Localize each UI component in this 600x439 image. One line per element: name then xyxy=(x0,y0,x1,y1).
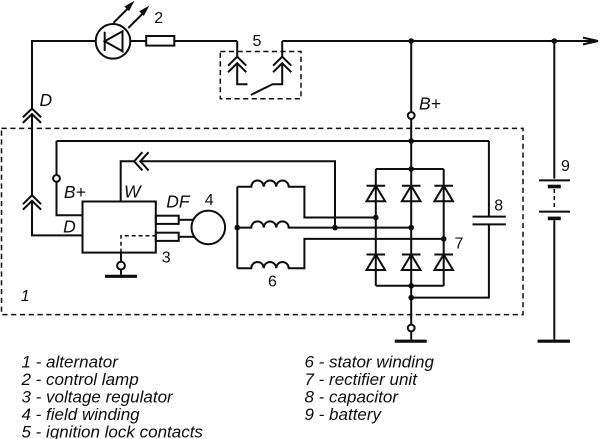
rectifier right leg xyxy=(443,169,445,286)
junction node inner top bus / B+ riser xyxy=(408,138,414,144)
svg-text:3 - voltage regulator: 3 - voltage regulator xyxy=(22,387,175,406)
DF pin lower xyxy=(156,233,179,241)
stator 6 bottom coil and phase wire xyxy=(237,239,443,268)
ground alternator output xyxy=(395,340,427,343)
control lamp 2 light arrow 1 xyxy=(114,1,135,23)
svg-text:2 - control lamp: 2 - control lamp xyxy=(21,370,139,389)
junction node right leg / bottom phase xyxy=(441,236,447,242)
stator 6 middle coil and phase wire xyxy=(237,221,411,227)
alternator 1 dashed boundary box xyxy=(2,128,524,314)
stator 6 top coil and phase wire xyxy=(237,180,375,217)
capacitor 8 bottom wire xyxy=(411,224,489,297)
svg-text:DF: DF xyxy=(166,191,191,211)
wire B+ riser lower xyxy=(410,119,412,169)
ground battery xyxy=(538,340,570,343)
control lamp 2 LED circle xyxy=(96,24,131,59)
svg-text:8 - capacitor: 8 - capacitor xyxy=(305,387,400,406)
rectifier center leg xyxy=(410,169,412,286)
stator 6 left bus xyxy=(236,187,238,269)
svg-text:6 - stator winding: 6 - stator winding xyxy=(305,352,435,371)
field winding 4 xyxy=(192,211,226,245)
junction node top bus / B+ riser xyxy=(408,38,414,44)
junction node top bus / battery riser xyxy=(552,38,558,44)
capacitor 8 plates xyxy=(473,217,506,225)
diode top-center xyxy=(402,186,421,202)
svg-text:W: W xyxy=(124,182,142,202)
junction node W tap xyxy=(332,225,338,231)
wire inner top bus (B+ to capacitor) xyxy=(57,140,489,142)
svg-text:3: 3 xyxy=(162,249,171,266)
switch 5 right contact and blade xyxy=(251,41,291,95)
junction node center leg / middle phase xyxy=(408,225,414,231)
svg-text:D: D xyxy=(40,90,53,110)
svg-text:5 - ignition lock contacts: 5 - ignition lock contacts xyxy=(22,422,204,439)
svg-text:2: 2 xyxy=(154,10,163,27)
svg-text:9 - battery: 9 - battery xyxy=(305,405,383,424)
wire battery riser xyxy=(553,41,555,179)
wire regulator B+ drop xyxy=(56,141,58,175)
terminal B+ xyxy=(408,112,415,119)
connector D upper chevrons xyxy=(23,109,41,123)
svg-text:8: 8 xyxy=(494,198,503,215)
rectifier left leg xyxy=(375,169,377,286)
svg-text:6: 6 xyxy=(268,274,277,291)
diode top-right xyxy=(434,186,453,202)
resistor of control lamp 2 xyxy=(146,36,174,46)
wire resistor to switch xyxy=(174,40,237,42)
svg-text:B+: B+ xyxy=(64,182,86,202)
ignition lock contacts 5 dashed box xyxy=(220,52,301,99)
svg-text:4: 4 xyxy=(205,192,214,209)
junction node capacitor branch xyxy=(408,295,414,301)
svg-text:1 - alternator: 1 - alternator xyxy=(22,352,120,371)
svg-text:9: 9 xyxy=(561,158,570,175)
svg-text:7 - rectifier unit: 7 - rectifier unit xyxy=(305,370,419,389)
wire DF upper to field winding xyxy=(179,219,194,221)
terminal alternator ground xyxy=(408,325,415,332)
control lamp 2 light arrow 2 xyxy=(128,6,149,28)
wire W from regulator top xyxy=(121,161,134,201)
rectifier 7 bottom bus xyxy=(376,285,444,287)
wire regulator ground upper xyxy=(120,253,122,262)
diode top-left xyxy=(367,186,386,202)
svg-text:B+: B+ xyxy=(419,93,441,113)
svg-text:D: D xyxy=(63,216,76,236)
wire B+ riser upper xyxy=(410,41,412,112)
voltage regulator 3 box xyxy=(83,202,156,253)
svg-text:7: 7 xyxy=(455,236,464,253)
rectifier 7 top bus xyxy=(376,168,444,170)
control lamp 2 diode cathode bar xyxy=(104,32,106,51)
wire D to regulator pin xyxy=(32,201,83,236)
wire terminal to ground bar xyxy=(410,331,412,339)
wire W to stator middle phase xyxy=(140,161,335,227)
terminal regulator B+ xyxy=(53,175,60,182)
wire top bus from switch to output arrow xyxy=(282,40,597,42)
ground regulator xyxy=(105,275,137,278)
wire top-left from D riser to lamp xyxy=(32,41,96,109)
junction node bottom bus / center leg xyxy=(408,283,414,289)
wire DF lower to field winding xyxy=(179,236,194,238)
diode bottom-left xyxy=(367,255,386,271)
terminal regulator ground xyxy=(117,262,125,270)
wire regulator B+ to pin xyxy=(57,182,83,216)
diode bottom-center xyxy=(402,255,421,271)
regulator internal dashed connection xyxy=(121,236,156,253)
wire rectifier to alternator ground xyxy=(410,286,412,325)
wire LED to resistor xyxy=(130,40,146,42)
switch 5 left contact connector chevrons xyxy=(228,41,247,84)
wire battery to ground xyxy=(553,220,555,339)
junction node top bus / center leg xyxy=(408,166,414,172)
svg-text:5: 5 xyxy=(253,33,262,50)
connector D lower chevrons xyxy=(23,195,41,209)
control lamp 2 diode triangle xyxy=(105,31,123,51)
wire D mid xyxy=(31,114,33,195)
junction node left leg / top phase xyxy=(373,215,379,221)
connector W chevrons xyxy=(134,152,149,170)
svg-text:1: 1 xyxy=(21,288,30,305)
arrow to loads xyxy=(583,38,598,45)
wire regulator ground lower xyxy=(120,270,122,275)
diode bottom-right xyxy=(434,255,453,271)
battery 9 xyxy=(539,180,570,218)
DF pin upper xyxy=(156,216,179,224)
junction node stator bus / middle coil xyxy=(235,225,241,231)
svg-text:4 - field winding: 4 - field winding xyxy=(22,405,141,424)
capacitor 8 top wire xyxy=(488,141,490,217)
